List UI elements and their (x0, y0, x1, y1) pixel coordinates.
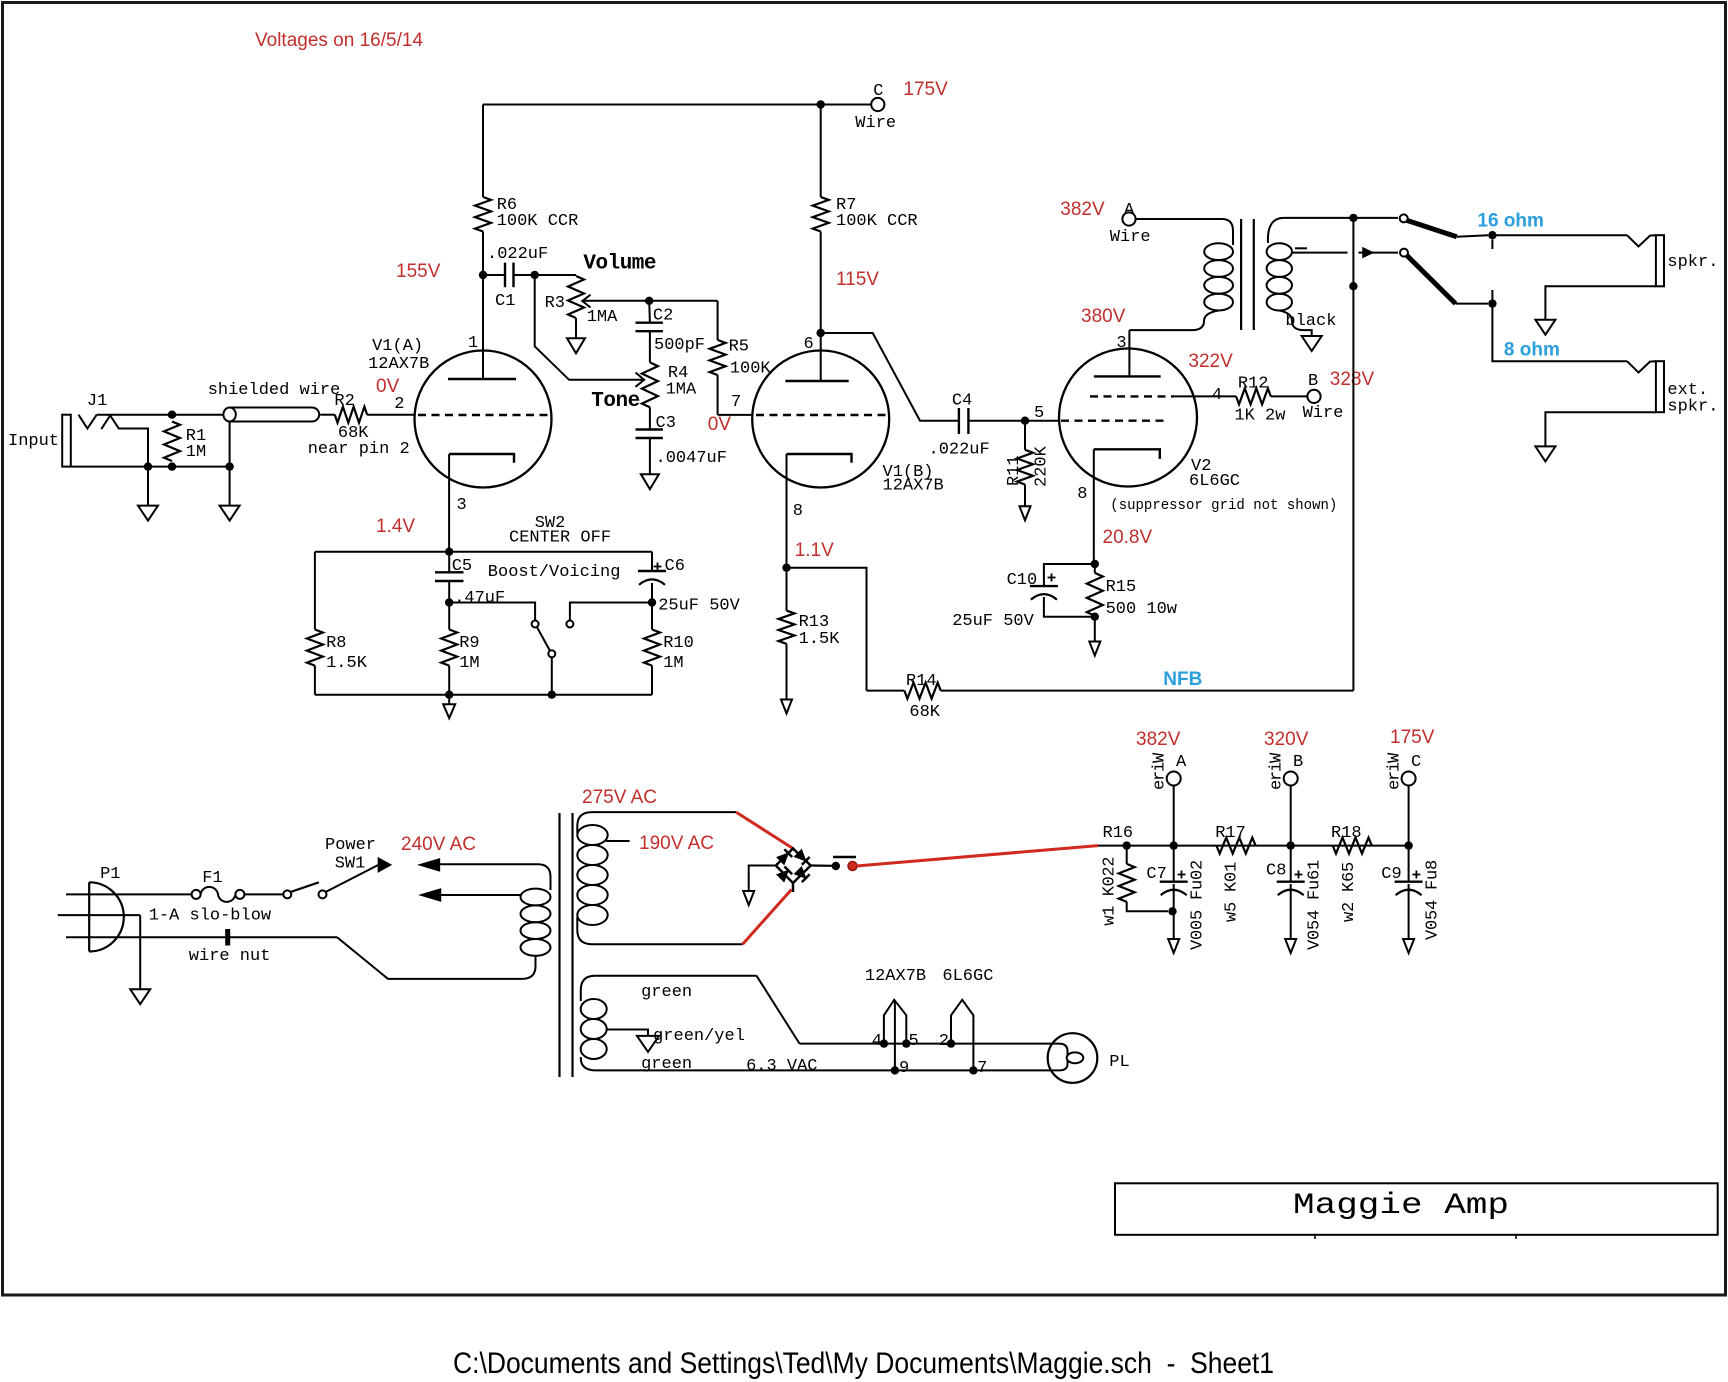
switch SW2 right contact (566, 621, 573, 628)
resistor R9 1M (448, 603, 450, 630)
svg-text:1.5K: 1.5K (326, 654, 368, 673)
junction: pin 4 (880, 1039, 888, 1047)
svg-text:0: 0 (1189, 870, 1208, 880)
junction: C5 bottom / switch left (445, 598, 453, 606)
svg-text:1M: 1M (459, 654, 479, 673)
V1A cathode (449, 454, 514, 463)
wire: red B+ feed to R16 node (857, 846, 1099, 866)
svg-text:.0047uF: .0047uF (656, 449, 727, 468)
svg-text:1MA: 1MA (666, 381, 697, 400)
junction: B node (1287, 841, 1295, 849)
wire terminal C (PSU) (1402, 772, 1416, 786)
svg-text:Volume: Volume (583, 253, 656, 276)
svg-text:240V AC: 240V AC (401, 834, 476, 855)
svg-text:V1(A): V1(A) (372, 337, 423, 356)
wire: input ground rail (71, 466, 230, 468)
wire: plate node diagonal to C4 (821, 333, 959, 421)
svg-text:green/yel: green/yel (653, 1027, 745, 1046)
svg-text:W: W (1268, 752, 1287, 763)
svg-text:F: F (1424, 880, 1443, 890)
fuse F1 1-A slo-blow (192, 890, 201, 899)
svg-text:K: K (1340, 881, 1359, 892)
R4 wiper arrow (636, 373, 645, 387)
svg-text:20.8V: 20.8V (1103, 527, 1153, 548)
svg-text:1.1V: 1.1V (795, 540, 834, 561)
svg-text:2: 2 (1101, 866, 1120, 876)
OT secondary tap mark (1295, 247, 1307, 249)
svg-text:.47uF: .47uF (454, 589, 505, 608)
svg-text:1: 1 (1101, 906, 1120, 916)
svg-text:12AX7B: 12AX7B (865, 967, 926, 986)
svg-text:K: K (1222, 881, 1241, 892)
svg-text:Input: Input (8, 432, 59, 451)
junction: NFB pickup (1349, 214, 1357, 222)
junction: R15 bottom (1091, 613, 1099, 621)
wire: SW1 to mains connector arrow (326, 865, 379, 892)
junction: wiper node (645, 297, 653, 305)
ground: bridge (743, 891, 754, 905)
svg-text:5: 5 (1189, 910, 1208, 920)
wire: heater bottom (581, 1057, 1059, 1070)
wire: HV secondary bottom (577, 917, 742, 944)
svg-text:r: r (1386, 771, 1405, 781)
wire: R3 wiper to C2 node (584, 300, 650, 302)
transformer PT core (558, 813, 560, 1077)
wire: NFB line to output (941, 690, 1354, 692)
label 20uF 500V (vertical) (1189, 860, 1208, 950)
resistor R7 (820, 105, 822, 198)
svg-text:R14: R14 (906, 672, 937, 691)
R3 wiper arrow (582, 295, 590, 308)
junction: R9 bottom (445, 691, 453, 699)
svg-text:SW1: SW1 (335, 855, 366, 874)
shielded wire (cable shield) (230, 408, 320, 422)
junction: sleeve node (144, 462, 152, 470)
connector arrow transformer lower (left) (421, 889, 441, 901)
svg-text:4: 4 (1306, 910, 1325, 920)
svg-text:F: F (1306, 890, 1325, 900)
junction: shield drain node (225, 462, 233, 470)
svg-text:C2: C2 (653, 307, 673, 326)
svg-text:2: 2 (394, 395, 404, 414)
title block box (1115, 1183, 1718, 1235)
V1B cathode lead pin 8 (786, 454, 788, 568)
svg-text:R12: R12 (1238, 375, 1269, 394)
junction: pin 7 (969, 1066, 977, 1074)
svg-text:175V: 175V (903, 79, 948, 100)
label Wire (PSU A, vertical) (1151, 752, 1170, 790)
svg-text:382V: 382V (1060, 199, 1105, 220)
svg-text:2: 2 (1340, 902, 1359, 912)
OT core (1240, 219, 1242, 330)
svg-text:R18: R18 (1331, 824, 1362, 843)
wire: R5 to V1B pin 7 (718, 414, 753, 416)
svg-text:0: 0 (1306, 930, 1325, 940)
tube V1(A) 12AX7B envelope (415, 351, 552, 488)
wire: OT primary to V2 plate (1129, 311, 1218, 331)
svg-text:100K CCR: 100K CCR (836, 212, 918, 231)
svg-text:115V: 115V (836, 269, 879, 290)
wire: heater top (581, 976, 757, 1001)
junction: top of R1 (168, 411, 176, 419)
svg-text:shielded wire: shielded wire (208, 381, 341, 400)
wire: ext sleeve (1545, 412, 1656, 446)
svg-text:1.4V: 1.4V (376, 516, 415, 537)
svg-text:r: r (1151, 771, 1170, 781)
svg-text:C3: C3 (656, 414, 676, 433)
wire: wiper node to R5 (649, 300, 717, 302)
label 56K 2w (vertical) (1340, 862, 1359, 922)
junction: on NFB line (1349, 282, 1357, 290)
svg-text:V: V (1189, 939, 1208, 950)
svg-text:R17: R17 (1215, 824, 1246, 843)
wire: 175V top rail (483, 104, 871, 106)
svg-text:green: green (641, 1055, 692, 1074)
svg-text:380V: 380V (1081, 306, 1126, 327)
wire: arrow to PT primary top (439, 864, 550, 890)
svg-text:e: e (1386, 780, 1405, 790)
resistor R13 (786, 568, 788, 611)
svg-text:0: 0 (1101, 876, 1120, 886)
svg-text:R5: R5 (729, 338, 749, 357)
wire: B+ rail (1098, 845, 1409, 847)
wire: R2 to V1A pin 2 (367, 414, 415, 416)
V2 plate (1094, 375, 1161, 377)
capacitor C5 .47uF (448, 552, 450, 573)
wire: shield to R2 (320, 414, 335, 416)
OT secondary winding (1267, 243, 1292, 260)
bridge rectifier BR1 (776, 849, 811, 884)
svg-text:C1: C1 (495, 292, 515, 311)
resistor R15 500 10w (1087, 573, 1103, 616)
svg-text:u: u (1189, 880, 1208, 890)
switch impedance pole 16ohm (1400, 214, 1408, 222)
svg-text:Wire: Wire (1110, 228, 1151, 247)
V2 screen lead pin 4 (1174, 395, 1236, 397)
ground: R3 bottom (567, 338, 585, 353)
transformer PT primary winding (521, 889, 551, 906)
svg-text:6: 6 (1306, 870, 1325, 880)
potentiometer R4 (Tone) (642, 362, 658, 407)
connector P1 mains plug (88, 882, 90, 951)
V2 screen grid (dashed) (1090, 395, 1174, 397)
svg-text:500 10w: 500 10w (1106, 600, 1178, 619)
resistor R10 1M (651, 603, 653, 630)
svg-text:C: C (1411, 753, 1421, 772)
junction: A node (1170, 841, 1178, 849)
svg-text:5: 5 (1306, 920, 1325, 930)
wire terminal A (PSU) (1167, 772, 1181, 786)
svg-text:J1: J1 (87, 392, 107, 411)
svg-text:4: 4 (872, 1032, 882, 1051)
ground: heater center tap (637, 1036, 659, 1052)
svg-text:(suppressor grid not shown): (suppressor grid not shown) (1110, 497, 1337, 514)
switch SW2 blade and pole (537, 627, 550, 650)
wire: cathode to NFB resistor (787, 568, 867, 691)
svg-text:322V: 322V (1188, 351, 1233, 372)
label 8uF 450V (vertical) (1424, 860, 1443, 940)
heater center tap (607, 1030, 648, 1036)
switch SW1 power (283, 890, 291, 898)
svg-text:12AX7B: 12AX7B (883, 477, 944, 496)
svg-text:K: K (1101, 885, 1120, 896)
svg-text:e: e (1151, 780, 1170, 790)
junction: R7 bottom / plate node (817, 329, 825, 337)
wire: to R3 top (535, 274, 576, 276)
resistor R8 1.5K (314, 552, 316, 630)
wire: bridge minus to ground (749, 866, 776, 892)
V1B plate lead pin 6 (820, 333, 822, 381)
svg-text:500pF: 500pF (654, 336, 705, 355)
svg-text:3: 3 (1116, 334, 1126, 353)
svg-text:0V: 0V (708, 414, 732, 435)
connector arrow transformer upper (left) (420, 859, 440, 871)
svg-text:C5: C5 (452, 557, 472, 576)
wire terminal C (175V) (871, 98, 884, 111)
V1B grid (dashed) (756, 414, 886, 416)
svg-text:8 ohm: 8 ohm (1504, 339, 1560, 360)
wire: heater top diagonal to bus (757, 976, 800, 1044)
resistor R6 (482, 105, 484, 198)
svg-text:155V: 155V (396, 261, 441, 282)
connector arrow live (right) (378, 858, 390, 871)
label 16uF 450V (vertical) (1306, 860, 1325, 950)
svg-text:Wire: Wire (855, 114, 896, 133)
svg-text:R8: R8 (326, 634, 346, 653)
standby red contact (848, 862, 857, 871)
junction: V2 cathode node (1091, 560, 1099, 568)
svg-text:A: A (1124, 201, 1135, 220)
svg-text:wire nut: wire nut (189, 947, 271, 966)
wire: arrow to PT primary tap (441, 894, 521, 896)
capacitor C6 25uF 50V (651, 552, 653, 571)
ground: C9 (1403, 939, 1414, 953)
svg-text:328V: 328V (1330, 369, 1375, 390)
svg-text:Tone: Tone (591, 390, 639, 413)
V1A cathode lead pin 3 (448, 454, 450, 552)
ground: C3 (641, 474, 659, 489)
V2 plate lead pin 3 (1128, 330, 1130, 376)
svg-text:100K: 100K (730, 360, 772, 379)
junction: R6 bottom / C1 left (479, 271, 487, 279)
svg-text:5: 5 (1340, 862, 1359, 872)
wire: earth prong (58, 914, 141, 916)
wire: 8 ohm to ext jack (1492, 304, 1627, 362)
svg-text:190V AC: 190V AC (639, 833, 714, 854)
svg-text:PL: PL (1109, 1053, 1129, 1072)
svg-text:7: 7 (731, 393, 741, 412)
svg-text:C7: C7 (1146, 865, 1166, 884)
capacitor C4 .022uF (958, 408, 960, 434)
svg-text:C6: C6 (665, 557, 685, 576)
resistor R1 (164, 422, 180, 462)
svg-text:7: 7 (977, 1059, 987, 1078)
junction: pin3 to rail (445, 548, 453, 556)
svg-text:1K 2w: 1K 2w (1234, 407, 1286, 426)
wire: A to OT primary (1136, 219, 1233, 245)
svg-text:2: 2 (939, 1032, 949, 1051)
svg-text:spkr.: spkr. (1667, 253, 1718, 272)
junction: R1 bottom (168, 462, 176, 470)
svg-text:1.5K: 1.5K (799, 630, 841, 649)
svg-text:V: V (1306, 939, 1325, 950)
svg-text:F1: F1 (202, 869, 222, 888)
svg-text:0: 0 (1189, 930, 1208, 940)
svg-text:CENTER OFF: CENTER OFF (509, 529, 611, 548)
svg-text:6.3 VAC: 6.3 VAC (746, 1057, 817, 1076)
switch impedance pole 8ohm (1400, 249, 1408, 257)
svg-text:1: 1 (1222, 862, 1241, 872)
junction: bridge output (832, 862, 840, 870)
ground: spkr jack (1535, 320, 1555, 335)
svg-text:4: 4 (1212, 386, 1222, 405)
tap arrow (1363, 248, 1373, 257)
svg-text:W: W (1151, 752, 1170, 763)
resistor R11 (1024, 421, 1026, 450)
svg-text:Boost/Voicing: Boost/Voicing (488, 563, 621, 582)
wire: bridge plus stub (811, 864, 833, 866)
wire: J1 tip to R1 node to shielded wire (97, 414, 224, 416)
resistor R5 (717, 301, 719, 340)
svg-text:w: w (1222, 911, 1241, 922)
svg-text:0: 0 (1189, 920, 1208, 930)
svg-text:16 ohm: 16 ohm (1477, 210, 1544, 231)
svg-text:1-A slo-blow: 1-A slo-blow (149, 907, 272, 926)
svg-text:near pin 2: near pin 2 (308, 440, 410, 459)
switch SW2 left contact (532, 621, 539, 628)
V2 control grid (dashed) (1061, 420, 1168, 422)
svg-text:1: 1 (468, 334, 478, 353)
wire: OT secondary bottom (black) (1279, 311, 1311, 337)
junction: volume top node (531, 271, 539, 279)
standby gap contact bar (833, 856, 856, 859)
svg-text:C8: C8 (1266, 862, 1286, 881)
junction: pin 9 (891, 1066, 899, 1074)
junction: 8 ohm node (1488, 299, 1496, 307)
transformer PT heater winding (581, 999, 607, 1019)
junction: R7 top (817, 100, 825, 108)
HV 190V tap (606, 840, 630, 842)
ground: R15 (1094, 617, 1096, 642)
svg-text:68K: 68K (909, 703, 940, 722)
svg-text:2: 2 (1189, 860, 1208, 870)
blade to 16 ohm (1407, 220, 1457, 237)
ground: R13 (781, 700, 792, 714)
svg-text:P1: P1 (100, 865, 120, 884)
svg-text:i: i (1151, 762, 1170, 772)
svg-text:6: 6 (804, 335, 814, 354)
wire: C5 node to SW2 left contact (449, 603, 535, 621)
svg-text:C: C (873, 82, 883, 101)
svg-text:Maggie Amp: Maggie Amp (1293, 1189, 1509, 1223)
ground: C7 (1168, 939, 1179, 953)
ground: mains earth (139, 915, 141, 989)
V1B cathode (787, 454, 852, 463)
tube V2 6L6GC envelope (1059, 349, 1197, 487)
capacitor C9 8uF 450V (1395, 881, 1423, 883)
svg-text:R16: R16 (1103, 824, 1134, 843)
svg-text:u: u (1306, 880, 1325, 890)
svg-text:.022uF: .022uF (929, 441, 990, 460)
svg-text:Power: Power (325, 836, 376, 855)
svg-text:e: e (1268, 780, 1287, 790)
transformer PT HV secondary winding (577, 825, 607, 845)
svg-text:B: B (1293, 753, 1303, 772)
svg-text:C10: C10 (1007, 571, 1038, 590)
tube V1(B) 12AX7B envelope (752, 351, 889, 488)
wire: HV top red to bridge (736, 812, 793, 848)
blade to 8 ohm (1407, 255, 1456, 303)
connector spkr jack (1627, 235, 1656, 246)
connector ext spkr jack (1627, 361, 1656, 372)
svg-text:R10: R10 (663, 634, 694, 653)
svg-text:w: w (1101, 915, 1120, 926)
wire: heater upper bus (800, 1043, 1060, 1045)
wire: right contact to C6 node (570, 603, 652, 621)
ground: SW2 network (448, 695, 450, 705)
svg-text:i: i (1386, 762, 1405, 772)
ground: C8 (1285, 939, 1296, 953)
connector J1 input jack (62, 415, 71, 467)
svg-text:green: green (641, 983, 692, 1002)
resistor R12 1K 2w (1236, 388, 1271, 404)
svg-text:i: i (1268, 762, 1287, 772)
wire: NFB vertical line (1352, 218, 1354, 691)
junction: pin 2 (947, 1039, 955, 1047)
capacitor C2 500pF (648, 301, 651, 323)
capacitor C10 25uF 50V (1044, 564, 1095, 586)
junction: pole bottom (548, 691, 556, 699)
svg-text:NFB: NFB (1163, 669, 1202, 690)
resistor R18 56K 2w (1333, 838, 1372, 854)
wire: SW2 top rail (315, 551, 652, 553)
wire terminal B (328V) (1307, 390, 1320, 403)
svg-text:Voltages on 16/5/14: Voltages on 16/5/14 (255, 30, 423, 51)
svg-text:0V: 0V (376, 376, 400, 397)
wire nut splice (225, 929, 230, 946)
ground: R11 (1020, 506, 1031, 520)
svg-text:B: B (1308, 372, 1318, 391)
V1A plate (448, 378, 516, 380)
junction: C node (1404, 841, 1412, 849)
svg-text:F: F (1189, 890, 1208, 900)
wire: SW2 bottom rail (315, 694, 652, 696)
svg-text:9: 9 (899, 1059, 909, 1078)
resistor R14 68K (867, 690, 905, 692)
svg-text:175V: 175V (1390, 727, 1435, 748)
svg-text:u: u (1424, 870, 1443, 880)
junction: C6 bottom (648, 598, 656, 606)
junction: 16 ohm node (1488, 231, 1496, 239)
ground: OT secondary (1302, 336, 1322, 351)
svg-text:320V: 320V (1264, 729, 1309, 750)
svg-text:12AX7B: 12AX7B (368, 355, 429, 374)
potentiometer R3 (Volume) (568, 276, 584, 318)
wire: live prong to fuse (66, 893, 192, 895)
resistor R16 220K 1w (1119, 864, 1135, 902)
label Wire (PSU C, vertical) (1386, 752, 1405, 790)
heater 12AX7B symbol (884, 1000, 906, 1044)
label 220K 1w (vertical) (1101, 857, 1120, 926)
svg-text:r: r (1268, 771, 1287, 781)
svg-text:5: 5 (1424, 910, 1443, 920)
wire: 16 ohm to spkr jack (1492, 234, 1627, 236)
capacitor C3 .0047uF (649, 407, 651, 429)
svg-text:R9: R9 (459, 634, 479, 653)
lamp PL pilot light (1048, 1033, 1098, 1083)
wire: neutral to PT primary bottom (337, 937, 522, 979)
svg-text:1M: 1M (186, 443, 206, 462)
